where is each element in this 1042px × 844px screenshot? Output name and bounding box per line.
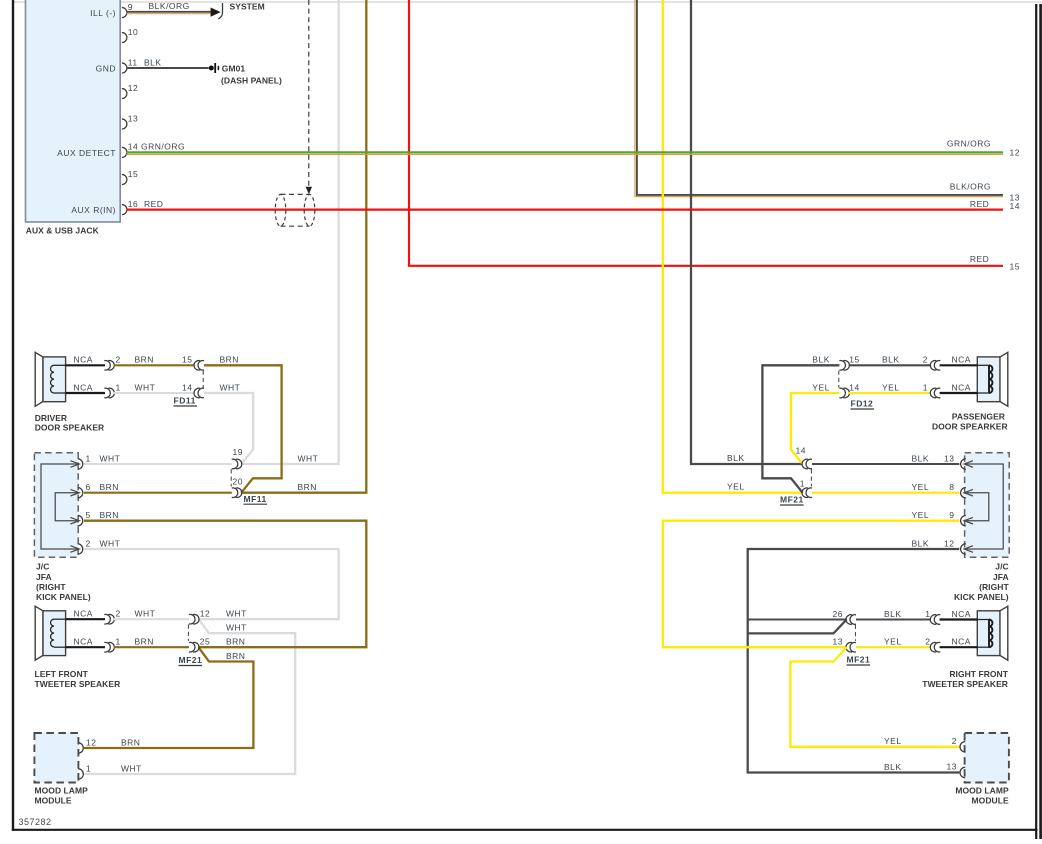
wire YEL FD12 pin 14 branch down to right MF21 pin 14: [791, 393, 840, 464]
svg-text:2: 2: [923, 355, 928, 365]
svg-text:BLK: BLK: [884, 762, 902, 772]
svg-text:NCA: NCA: [952, 609, 971, 619]
svg-text:BRN: BRN: [121, 737, 140, 747]
svg-text:WHT: WHT: [100, 538, 121, 548]
svg-text:KICK PANEL): KICK PANEL): [954, 592, 1009, 602]
svg-text:26: 26: [833, 609, 843, 619]
mood lamp module right body: [965, 733, 1009, 783]
svg-text:NCA: NCA: [74, 609, 93, 619]
svg-text:11: 11: [128, 57, 138, 67]
wire WHT left MF21 pin 12 branch to mood lamp pin 1: [84, 619, 295, 774]
right tweeter terminal wire pin 2: [940, 646, 978, 648]
J/C right pin 9 arc: [961, 516, 966, 526]
svg-text:YEL: YEL: [884, 637, 902, 647]
svg-text:15: 15: [849, 355, 859, 365]
svg-text:JFA: JFA: [36, 572, 52, 582]
svg-text:WHT: WHT: [226, 609, 247, 619]
svg-text:WHT: WHT: [100, 453, 121, 463]
page frame bottom border: [12, 829, 1038, 831]
J/C left pin 1 arc: [78, 459, 83, 469]
passenger speaker pin 1 connector arcs: [934, 388, 940, 398]
svg-text:12: 12: [944, 538, 954, 548]
wire WHT FD11 pin 14 down to MF11 pin 19 branch: [204, 393, 253, 464]
svg-text:DOOR SPEAKER: DOOR SPEAKER: [35, 423, 105, 433]
svg-text:12: 12: [86, 737, 96, 747]
J/C left pin 2 arc: [78, 544, 83, 554]
wire BLK right lower MF21 pin 26 to right tweeter pin 1: [856, 618, 931, 620]
J/C left pin 5 arc: [78, 516, 83, 526]
svg-text:357282: 357282: [19, 817, 52, 827]
svg-text:12: 12: [200, 609, 210, 619]
svg-text:1: 1: [86, 763, 91, 773]
svg-text:BRN: BRN: [226, 637, 245, 647]
J/C right pin 12 arc: [961, 544, 966, 554]
svg-text:WHT: WHT: [220, 382, 241, 392]
left MF21 connector link dashes: [187, 625, 189, 641]
svg-text:DRIVER: DRIVER: [35, 413, 67, 423]
right tweeter pin 2 connector arcs: [934, 642, 940, 652]
svg-text:WHT: WHT: [298, 453, 319, 463]
svg-text:NCA: NCA: [74, 637, 93, 647]
svg-text:GM01: GM01: [222, 63, 246, 73]
svg-text:YEL: YEL: [912, 482, 930, 492]
wire WHT J/C left pin 1 to MF11 pin 19: [84, 463, 232, 465]
svg-text:2: 2: [116, 609, 121, 619]
inline connector left MF21 pin 25 arcs: [189, 642, 195, 652]
inline connector right lower MF21 pin 26 arcs: [850, 615, 856, 625]
wire BRN feeder from top to MF11 pin 20: [241, 0, 366, 493]
page frame right border outer line: [1039, 4, 1042, 839]
svg-text:2: 2: [952, 736, 957, 746]
svg-text:1: 1: [923, 382, 928, 392]
svg-text:15: 15: [1010, 262, 1020, 272]
svg-text:15: 15: [128, 169, 138, 179]
svg-text:1: 1: [925, 609, 930, 619]
wire YEL FD12 pin 14 to passenger speaker pin 1: [849, 392, 931, 394]
inline connector MF11 pin 20 arcs: [232, 488, 238, 498]
svg-text:14: 14: [1010, 201, 1020, 211]
svg-text:RED: RED: [970, 254, 989, 264]
inline connector FD11 pin 14 arcs: [198, 388, 204, 398]
svg-text:YEL: YEL: [727, 481, 745, 491]
wire WHT left tweeter pin 2 to MF21 pin 12: [114, 618, 189, 620]
svg-text:YEL: YEL: [884, 736, 902, 746]
AUX jack pin 16 arc: [122, 205, 127, 215]
svg-text:12: 12: [1010, 148, 1020, 158]
SYSTEM arrowhead: [211, 8, 221, 17]
left tweeter pin 1 connector arcs: [104, 642, 110, 652]
inline connector right MF21 pin 1 arcs: [806, 488, 812, 498]
svg-text:20: 20: [233, 476, 243, 486]
svg-text:WHT: WHT: [135, 609, 156, 619]
svg-text:RED: RED: [970, 199, 989, 209]
svg-text:BRN: BRN: [220, 355, 239, 365]
mood lamp module left body: [34, 733, 78, 783]
inline connector FD11 pin 15 arcs: [198, 361, 204, 371]
wire BLK/ORG feeder from top, corner to right edge (BLK/ORG 13): [635, 0, 1003, 197]
svg-text:SYSTEM: SYSTEM: [230, 2, 265, 12]
mood lamp right pin 2 arc: [960, 742, 965, 752]
svg-text:(RIGHT: (RIGHT: [979, 582, 1009, 592]
wire BRN left tweeter pin 1 to MF21 pin 25: [114, 646, 189, 648]
left tweeter terminal wire pin 1: [54, 646, 66, 648]
wire YEL right lower MF21 pin 13 to right tweeter pin 2: [856, 646, 931, 648]
J/C right internal bus pins 13-12: [965, 464, 1003, 549]
J/C right internal bus pins 8-9: [965, 493, 988, 521]
svg-text:10: 10: [128, 27, 138, 37]
wire WHT driver speaker pin 1 to FD11 pin 14: [114, 392, 195, 394]
wire BRN J/C left pin 6 to MF11 pin 20: [84, 492, 232, 494]
connector block AUX & USB JACK body: [26, 0, 121, 222]
wire BRN driver speaker pin 2 to FD11 pin 15: [114, 364, 195, 366]
driver speaker terminal wire pin 2: [54, 364, 66, 366]
wire BRN J/C left pin 5 to left MF21 pin 25: [84, 521, 366, 648]
svg-text:5: 5: [86, 510, 91, 520]
svg-text:16: 16: [128, 199, 138, 209]
svg-text:LEFT FRONT: LEFT FRONT: [35, 669, 89, 679]
page frame right border inner line: [1035, 4, 1037, 839]
left tweeter pin 2 connector arcs: [104, 614, 110, 624]
svg-text:BLK: BLK: [144, 57, 162, 67]
inline connector FD12 pin 15 arcs: [839, 361, 845, 371]
mood lamp right pin 13 arc: [960, 767, 965, 777]
svg-text:BRN: BRN: [100, 510, 119, 520]
MF11 connector link dashes: [230, 469, 232, 486]
svg-text:FD11: FD11: [174, 396, 196, 406]
svg-text:YEL: YEL: [912, 510, 930, 520]
inline connector FD12 pin 14 arcs: [839, 388, 845, 398]
junction block J/C JFA (RIGHT KICK PANEL) left body: [34, 453, 78, 557]
wire WHT J/C left pin 2 to left MF21 pin 12: [84, 549, 339, 619]
wire BRN left MF21 pin 25 branch to mood lamp pin 12: [84, 647, 253, 748]
svg-text:13: 13: [944, 453, 954, 463]
AUX jack pin 13 arc: [122, 119, 127, 129]
svg-text:15: 15: [182, 355, 192, 365]
svg-text:JFA: JFA: [993, 572, 1009, 582]
svg-text:MODULE: MODULE: [35, 795, 72, 805]
svg-text:1: 1: [86, 453, 91, 463]
wire BLK diagonal branch into right lower MF21 pin 26: [748, 620, 847, 634]
AUX jack pin 11 arc: [122, 63, 127, 73]
mood lamp left pin 1 arc: [78, 769, 83, 779]
svg-text:MF21: MF21: [780, 495, 804, 505]
wire YEL branch right lower MF21 pin 13 to mood lamp pin 2: [790, 647, 959, 747]
wire BLK pin 11 to ground GM01: [127, 67, 209, 69]
driver speaker terminal wire pin 1: [54, 392, 66, 394]
wire BLK right MF21 pin 14 to J/C right pin 13: [812, 463, 959, 465]
inline connector MF11 pin 19 arcs: [232, 459, 238, 469]
inline connector right MF21 pin 14 arcs: [806, 459, 812, 469]
AUX jack pin 12 arc: [122, 89, 127, 99]
svg-text:YEL: YEL: [882, 382, 900, 392]
right MF21 connector link dashes: [810, 469, 812, 486]
svg-text:KICK PANEL): KICK PANEL): [36, 592, 91, 602]
svg-text:6: 6: [86, 482, 91, 492]
svg-text:FD12: FD12: [851, 399, 874, 409]
svg-text:BRN: BRN: [135, 355, 154, 365]
shielding symbol around RED wire (dashed cylinder): [275, 194, 286, 226]
svg-text:9: 9: [949, 510, 954, 520]
svg-text:AUX R(IN): AUX R(IN): [71, 205, 116, 215]
svg-text:BLK: BLK: [912, 453, 930, 463]
svg-text:AUX & USB JACK: AUX & USB JACK: [26, 226, 100, 236]
svg-text:BRN: BRN: [100, 482, 119, 492]
wire BLK J/C right pin 12 down to mood lamp pin 13: [748, 549, 960, 773]
wire BLK feeder from top to right MF21 pin 14: [691, 0, 803, 464]
driver speaker pin 1 connector arcs: [104, 388, 110, 398]
left tweeter terminal wire pin 2: [54, 618, 66, 620]
svg-text:14: 14: [182, 382, 192, 392]
svg-text:WHT: WHT: [135, 382, 156, 392]
svg-text:J/C: J/C: [36, 562, 49, 572]
wire YEL J/C right pin 9 to right lower MF21 pin 13: [663, 521, 960, 648]
svg-text:BLK: BLK: [912, 538, 930, 548]
wire YEL feeder from top to right MF21 pin 1: [663, 0, 803, 493]
page top hairline: [13, 1, 1042, 3]
mood lamp left pin 12 arc: [78, 743, 83, 753]
AUX jack pin 10 arc: [122, 33, 127, 43]
svg-text:RIGHT FRONT: RIGHT FRONT: [949, 669, 1008, 679]
svg-text:GRN/ORG: GRN/ORG: [141, 142, 185, 152]
J/C right pin 8 arc: [961, 488, 966, 498]
svg-text:AUX DETECT: AUX DETECT: [57, 148, 116, 158]
J/C right pin 13 arc: [961, 459, 966, 469]
passenger door speaker symbol: [1000, 352, 1008, 406]
wire RED from AUX pin 16 to right edge (RED 14): [127, 209, 1004, 211]
inline connector right lower MF21 pin 13 arcs: [850, 642, 856, 652]
svg-text:13: 13: [833, 637, 843, 647]
svg-text:14: 14: [128, 142, 138, 152]
svg-text:9: 9: [128, 2, 133, 12]
left front tweeter speaker symbol: [35, 606, 43, 660]
SYSTEM receptacle arc: [218, 3, 222, 19]
svg-text:1: 1: [116, 382, 121, 392]
right tweeter pin 1 connector arcs: [934, 615, 940, 625]
svg-text:13: 13: [128, 113, 138, 123]
svg-text:GRN/ORG: GRN/ORG: [947, 138, 991, 148]
svg-text:MOOD LAMP: MOOD LAMP: [35, 786, 89, 796]
FD12 connector link dashes: [838, 371, 840, 388]
svg-text:BLK: BLK: [812, 355, 830, 365]
svg-text:2: 2: [86, 538, 91, 548]
passenger speaker terminal wire pin 2: [940, 364, 978, 366]
svg-text:14: 14: [796, 446, 806, 456]
svg-text:12: 12: [128, 83, 138, 93]
AUX jack pin 15 arc: [122, 175, 127, 185]
AUX jack pin 14 arc: [122, 147, 127, 157]
svg-text:BRN: BRN: [226, 651, 245, 661]
svg-text:8: 8: [949, 482, 954, 492]
wire BLK/ORG pin 9 to SYSTEM (black over orange): [127, 11, 212, 13]
svg-text:GND: GND: [96, 63, 116, 73]
junction block J/C JFA (RIGHT KICK PANEL) right body: [965, 453, 1010, 557]
svg-text:BRN: BRN: [135, 637, 154, 647]
wire GRN/ORG from AUX pin 14 to right edge (GRN/ORG 12): [127, 151, 1004, 153]
FD11 connector link dashes: [202, 371, 204, 388]
page frame left border: [12, 0, 14, 831]
right front tweeter speaker symbol: [1000, 606, 1008, 660]
svg-text:(RIGHT: (RIGHT: [36, 582, 66, 592]
svg-text:NCA: NCA: [952, 382, 971, 392]
J/C left internal bus pins 6-5: [55, 493, 77, 521]
ground splice GM01 symbol: [209, 66, 214, 71]
svg-text:DOOR SPEARKER: DOOR SPEARKER: [932, 421, 1008, 431]
svg-text:(DASH PANEL): (DASH PANEL): [221, 75, 282, 85]
wire BLK FD12 pin 15 branch down to right MF21 pin 1: [762, 365, 839, 492]
svg-text:13: 13: [947, 762, 957, 772]
passenger speaker terminal wire pin 1: [940, 392, 978, 394]
svg-text:1: 1: [800, 478, 805, 488]
svg-text:MF21: MF21: [847, 655, 871, 665]
svg-text:MODULE: MODULE: [972, 795, 1009, 805]
shield drain arrowhead: [306, 187, 312, 194]
svg-text:RED: RED: [144, 199, 163, 209]
svg-text:ILL (-): ILL (-): [90, 8, 116, 18]
svg-text:BLK: BLK: [882, 355, 900, 365]
shield drain dashed lead from top: [308, 0, 310, 189]
svg-text:MF11: MF11: [244, 494, 267, 504]
right lower MF21 connector link dashes: [854, 625, 856, 641]
driver speaker pin 2 connector arcs: [104, 361, 110, 371]
svg-text:NCA: NCA: [74, 382, 93, 392]
svg-text:BLK: BLK: [884, 609, 902, 619]
svg-text:NCA: NCA: [952, 637, 971, 647]
svg-text:19: 19: [233, 447, 243, 457]
svg-text:WHT: WHT: [121, 763, 142, 773]
wire BRN FD11 pin 15 down to MF11 pin 20 branch: [204, 365, 282, 492]
svg-text:MOOD LAMP: MOOD LAMP: [955, 786, 1009, 796]
svg-text:WHT: WHT: [226, 623, 247, 633]
svg-text:2: 2: [925, 637, 930, 647]
svg-text:J/C: J/C: [995, 562, 1008, 572]
J/C left pin 6 arc: [78, 488, 83, 498]
passenger speaker pin 2 connector arcs: [934, 361, 940, 371]
right tweeter terminal wire pin 1: [940, 618, 978, 620]
wire WHT feeder from top to MF11 pin 19: [241, 0, 338, 464]
svg-text:1: 1: [116, 637, 121, 647]
svg-text:MF21: MF21: [179, 655, 203, 665]
wire RED feeder from top, corner to right edge (RED 15): [409, 0, 1003, 266]
svg-text:BLK: BLK: [727, 453, 745, 463]
svg-text:NCA: NCA: [74, 355, 93, 365]
wire YEL right MF21 pin 1 to J/C right pin 8: [812, 492, 959, 494]
svg-text:BLK/ORG: BLK/ORG: [149, 1, 190, 11]
svg-text:BLK/ORG: BLK/ORG: [950, 182, 991, 192]
svg-text:TWEETER SPEAKER: TWEETER SPEAKER: [922, 679, 1008, 689]
svg-text:NCA: NCA: [952, 355, 971, 365]
wire BLK FD12 pin 15 to passenger speaker pin 2: [849, 364, 931, 366]
svg-text:25: 25: [200, 637, 210, 647]
wire BLK branch to right lower MF21 pin 26: [748, 618, 847, 620]
driver door speaker symbol: [35, 352, 43, 406]
svg-text:PASSENGER: PASSENGER: [952, 412, 1005, 422]
J/C left internal bus pins 1-2: [41, 464, 78, 549]
AUX jack pin 9 arc: [122, 8, 127, 18]
svg-text:YEL: YEL: [812, 382, 830, 392]
inline connector left MF21 pin 12 arcs: [189, 614, 195, 624]
svg-text:TWEETER SPEAKER: TWEETER SPEAKER: [35, 679, 121, 689]
svg-text:14: 14: [849, 382, 859, 392]
svg-text:BRN: BRN: [298, 482, 317, 492]
svg-text:2: 2: [116, 355, 121, 365]
